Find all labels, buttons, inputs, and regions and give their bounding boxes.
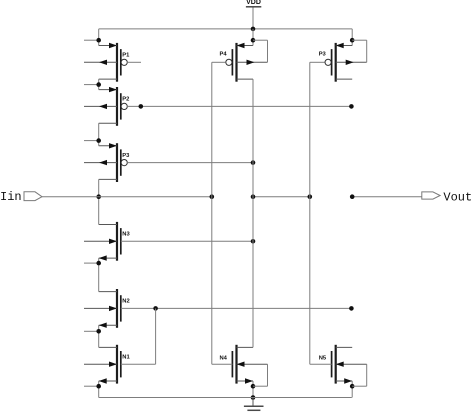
wire N4 source to ground with bulk tie (251, 364, 268, 400)
transistor P3 (319, 43, 367, 82)
port Iin (0, 190, 42, 204)
wire ground rail (99, 397, 352, 399)
wire P2 gate net (127, 104, 354, 109)
wire P4 source riser with bulk tie (251, 29, 268, 62)
wire N5 source with bulk tie (350, 364, 367, 397)
transistor N5 (319, 345, 367, 384)
wire output node to Vout (350, 194, 422, 199)
transistor N2 (84, 289, 130, 328)
svg-text:P1: P1 (122, 53, 130, 59)
VDD symbol (246, 0, 261, 29)
wire N3 source to N2 drain (84, 258, 101, 292)
wire P1 drain to P2 source (84, 79, 101, 90)
wire P3 right source riser with bulk tie (350, 38, 367, 62)
transistor P4 (220, 43, 268, 82)
wire N1 source to ground rail (84, 381, 101, 398)
wire P1 gate stub (127, 61, 141, 63)
wire P2 drain to P3 source (84, 123, 101, 146)
svg-text:P4: P4 (220, 52, 228, 58)
svg-text:Vout: Vout (443, 191, 472, 205)
transistor N4 (220, 345, 268, 384)
wire P4 drain rail (252, 79, 254, 347)
node A stub (VDD to P1 source) (84, 38, 101, 43)
wire N2 source to N1 drain (84, 325, 101, 347)
svg-text:Iin: Iin (0, 190, 22, 204)
wire N3 gate to P4 drain rail (121, 239, 256, 244)
svg-text:N5: N5 (319, 356, 327, 362)
VDD supply rail (99, 29, 353, 46)
wire P3 drain to N3 drain (input node) (96, 179, 101, 224)
port Vout (422, 191, 472, 205)
svg-text:P2: P2 (122, 97, 129, 103)
transistor N3 (84, 222, 130, 261)
svg-text:N1: N1 (122, 354, 130, 360)
transistor P1 (84, 43, 130, 82)
svg-text:N2: N2 (122, 299, 129, 305)
svg-text:N4: N4 (220, 356, 228, 362)
node VDD junction dot (251, 27, 256, 32)
wire P4 gate rail (Iin net) (212, 62, 233, 364)
wire N1 gate tie to N2 gate (121, 308, 156, 364)
wire Iin to P4 gate rail (42, 194, 214, 199)
transistor P2 (84, 87, 129, 126)
transistor N1 (84, 345, 130, 384)
wire P3 gate to P4 drain rail (127, 160, 255, 165)
wire cascode vertical (P3 right gate / N5 gate) (310, 62, 332, 364)
svg-text:P3: P3 (319, 52, 327, 58)
transistor P3 (84, 143, 130, 182)
svg-text:N3: N3 (122, 232, 130, 238)
ground (244, 398, 264, 411)
wire P4 drain rail to cascode rail (mid link) (251, 194, 312, 199)
svg-text:P3: P3 (122, 153, 130, 159)
svg-text:VDD: VDD (246, 0, 261, 6)
wire N2 gate net (121, 306, 354, 311)
